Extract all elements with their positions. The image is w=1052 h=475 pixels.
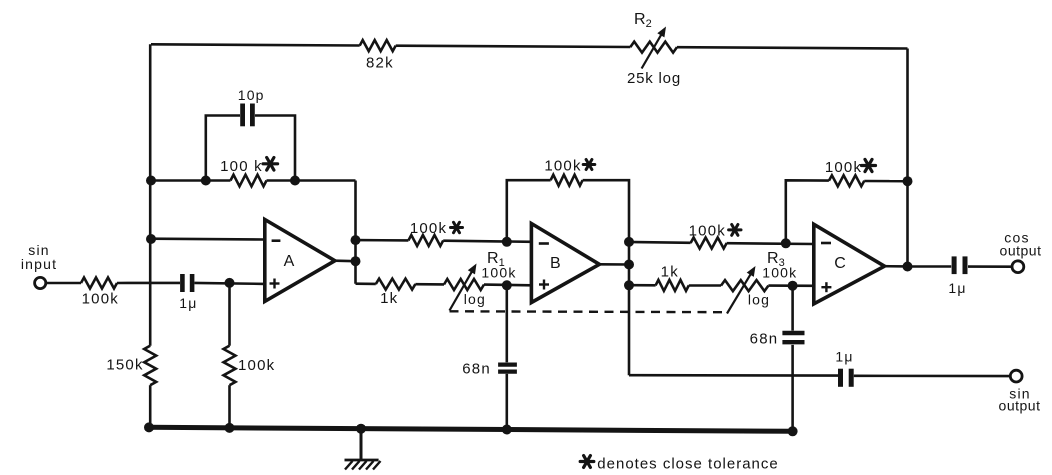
svg-text:82k: 82k: [366, 55, 394, 72]
wire left rail upper: [149, 44, 152, 345]
capacitor 1u cos: [952, 256, 957, 274]
wire A output: [335, 259, 356, 262]
svg-text:100k: 100k: [762, 265, 797, 281]
svg-text:output: output: [1000, 242, 1042, 258]
asterisk B-C: [729, 228, 741, 231]
wire B to C minus left: [629, 241, 691, 244]
node 68n C ground: [788, 426, 798, 436]
wire B output: [599, 263, 629, 266]
wire 100k to 1u cap: [117, 282, 180, 285]
svg-text:68n: 68n: [462, 360, 491, 377]
wire B feedback loop: [507, 180, 551, 242]
wire B output vertical: [628, 242, 631, 375]
svg-text:100 k: 100 k: [220, 158, 263, 175]
ground symbol: [360, 429, 363, 460]
node 68n B ground: [502, 425, 512, 435]
dashed gang line: [450, 310, 727, 313]
resistor 100k feedback C: [829, 175, 864, 186]
wire 100k bias lower: [228, 385, 231, 428]
svg-text:10p: 10p: [238, 87, 265, 103]
wire 68n B lower: [505, 374, 508, 430]
wire cos output right: [968, 265, 1012, 268]
wire 1k to R3: [689, 284, 721, 287]
wire top right segment: [677, 47, 908, 48]
wire 68n C upper: [791, 286, 794, 331]
wire sin output right: [854, 374, 1010, 377]
wire B to C minus right: [727, 242, 814, 245]
svg-text:1μ: 1μ: [179, 295, 197, 311]
resistor 82k: [360, 40, 396, 51]
resistor 100k B-C: [691, 238, 727, 249]
svg-text:100k: 100k: [825, 159, 862, 176]
op-amp A: [265, 220, 335, 302]
node A to B tap: [351, 235, 361, 245]
svg-text:B: B: [550, 255, 561, 272]
resistor 100k feedback A: [231, 175, 267, 187]
node B output: [624, 260, 634, 270]
wire C feedback loop: [786, 180, 829, 243]
asterisk feedback B: [583, 163, 595, 166]
node C output: [903, 262, 913, 272]
capacitor 1u sin: [838, 369, 843, 387]
capacitor 1u input: [180, 274, 185, 292]
wire ground bus: [148, 427, 793, 431]
svg-text:100k: 100k: [238, 357, 275, 374]
wire A to B minus right: [443, 241, 531, 242]
wire A feedback left: [150, 179, 230, 182]
wire top middle segment: [396, 46, 631, 47]
potentiometer R3 100k log: [721, 280, 768, 291]
node ground stub: [356, 424, 366, 434]
svg-text:1μ: 1μ: [835, 349, 853, 365]
svg-text:100k: 100k: [410, 220, 447, 237]
wire B out to 1k C: [629, 284, 656, 287]
asterisk A-B: [451, 226, 463, 229]
node input bias junction: [225, 278, 235, 288]
wire top left segment: [151, 44, 360, 45]
svg-text:output: output: [999, 398, 1041, 414]
svg-text:100k: 100k: [82, 291, 119, 308]
svg-text:input: input: [21, 256, 57, 272]
asterisk feedback C: [862, 164, 876, 167]
node B plus junction: [502, 280, 512, 290]
node rail ground: [144, 422, 154, 432]
svg-text:1k: 1k: [380, 290, 398, 307]
capacitor 68n C: [782, 331, 804, 335]
wire sin input to 100k: [46, 282, 81, 285]
resistor 100k bias: [224, 346, 236, 386]
wire sin output left: [629, 374, 838, 377]
wire A feedback right: [267, 179, 356, 182]
asterisk note: [580, 460, 594, 463]
wire 100k bias upper: [228, 283, 231, 346]
op-amp B: [531, 224, 599, 303]
node rail feedback A: [146, 176, 156, 186]
terminal cos output: [1012, 261, 1024, 273]
op-amp C: [814, 224, 885, 304]
wire 68n C lower: [791, 345, 794, 431]
svg-text:150k: 150k: [106, 357, 143, 374]
terminal sin output: [1010, 370, 1022, 382]
node rail A minus: [146, 234, 156, 244]
node C plus junction: [788, 281, 798, 291]
potentiometer R1 100k log: [444, 279, 484, 290]
svg-text:100k: 100k: [544, 158, 581, 175]
svg-text:log: log: [464, 291, 486, 307]
terminal sin input: [35, 277, 46, 288]
node C feedback tap: [903, 176, 913, 186]
wire A minus input: [150, 237, 265, 240]
capacitor 10p loop: [206, 116, 240, 181]
node 10p left: [201, 176, 211, 186]
node C minus junction: [781, 238, 791, 248]
asterisk feedback A: [263, 162, 278, 165]
wire R3 to C plus: [768, 284, 813, 287]
wire left rail lower: [149, 385, 152, 428]
capacitor 68n B: [498, 363, 517, 367]
svg-text:denotes close tolerance: denotes close tolerance: [597, 456, 778, 473]
svg-text:log: log: [748, 292, 770, 308]
node B feedback tap: [624, 237, 634, 247]
svg-text:100k: 100k: [689, 222, 726, 239]
node B minus junction: [502, 237, 512, 247]
node A output: [351, 256, 361, 266]
wire 1u cap to op-amp A plus: [195, 283, 265, 284]
svg-text:68n: 68n: [750, 331, 779, 348]
resistor 100k feedback B: [551, 175, 583, 186]
wire right rail to C output: [906, 49, 909, 267]
svg-text:C: C: [834, 255, 846, 272]
wire 1k to R1: [415, 283, 444, 286]
resistor 150k: [144, 346, 156, 386]
svg-text:1μ: 1μ: [948, 280, 966, 296]
resistor 1k C: [656, 280, 689, 291]
potentiometer R2 25k: [630, 42, 677, 53]
svg-text:1k: 1k: [661, 264, 679, 281]
wire A output vertical: [354, 181, 357, 284]
svg-text:A: A: [284, 253, 295, 270]
wire R1 to B plus: [484, 283, 531, 286]
wire C output: [885, 265, 908, 268]
resistor 1k B: [376, 279, 416, 290]
wire 68n B upper: [505, 285, 508, 362]
node bias ground: [225, 423, 235, 433]
svg-text:100k: 100k: [481, 265, 516, 281]
svg-text:25k log: 25k log: [627, 70, 681, 87]
node 10p right: [290, 176, 300, 186]
node B to C tap: [624, 280, 634, 290]
wire A to B minus left: [356, 239, 409, 242]
resistor 100k A-B: [408, 235, 443, 246]
wire cos output left: [908, 265, 952, 268]
wire A out to 1k: [356, 282, 376, 285]
resistor 100k input: [81, 278, 117, 289]
